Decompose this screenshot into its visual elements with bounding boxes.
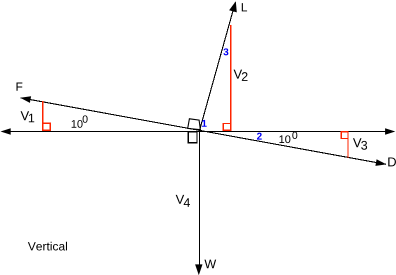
right-angle marker rotated black square between F and L	[188, 119, 201, 130]
label V2	[234, 70, 243, 79]
right-angle marker black square below axis	[188, 132, 197, 143]
component V2 red vertical segment	[230, 25, 232, 131]
wire W vertical line	[199, 131, 201, 272]
component V1 red vertical segment	[42, 101, 44, 131]
label L	[242, 3, 247, 11]
right-angle marker V1 red square	[43, 123, 50, 130]
label angle 1 blue	[202, 120, 207, 127]
vector D arrowhead	[375, 159, 386, 166]
label V1	[21, 111, 30, 120]
vector L arrowhead	[229, 1, 237, 12]
axis right arrowhead	[385, 128, 395, 134]
label F	[16, 83, 22, 91]
vector W arrowhead	[195, 264, 202, 275]
label angle 10 degrees left	[72, 120, 83, 128]
label angle 3 blue	[223, 48, 228, 55]
right-angle marker V3 red square	[341, 132, 348, 139]
label angle 10 degrees right	[279, 135, 290, 143]
vector F arrowhead	[20, 96, 31, 103]
axis left arrowhead	[1, 128, 11, 134]
label D	[388, 157, 396, 166]
wire F-D diagonal line	[21, 98, 387, 165]
wire horizontal axis line	[2, 131, 394, 133]
label V3	[353, 138, 362, 147]
label V4	[176, 195, 185, 204]
wire L line	[200, 3, 236, 131]
label Vertical	[28, 242, 67, 251]
right-angle marker V2 red square	[223, 123, 231, 130]
component V3 red vertical segment	[347, 132, 349, 159]
label W	[204, 260, 216, 269]
label angle 2 blue	[257, 133, 262, 140]
